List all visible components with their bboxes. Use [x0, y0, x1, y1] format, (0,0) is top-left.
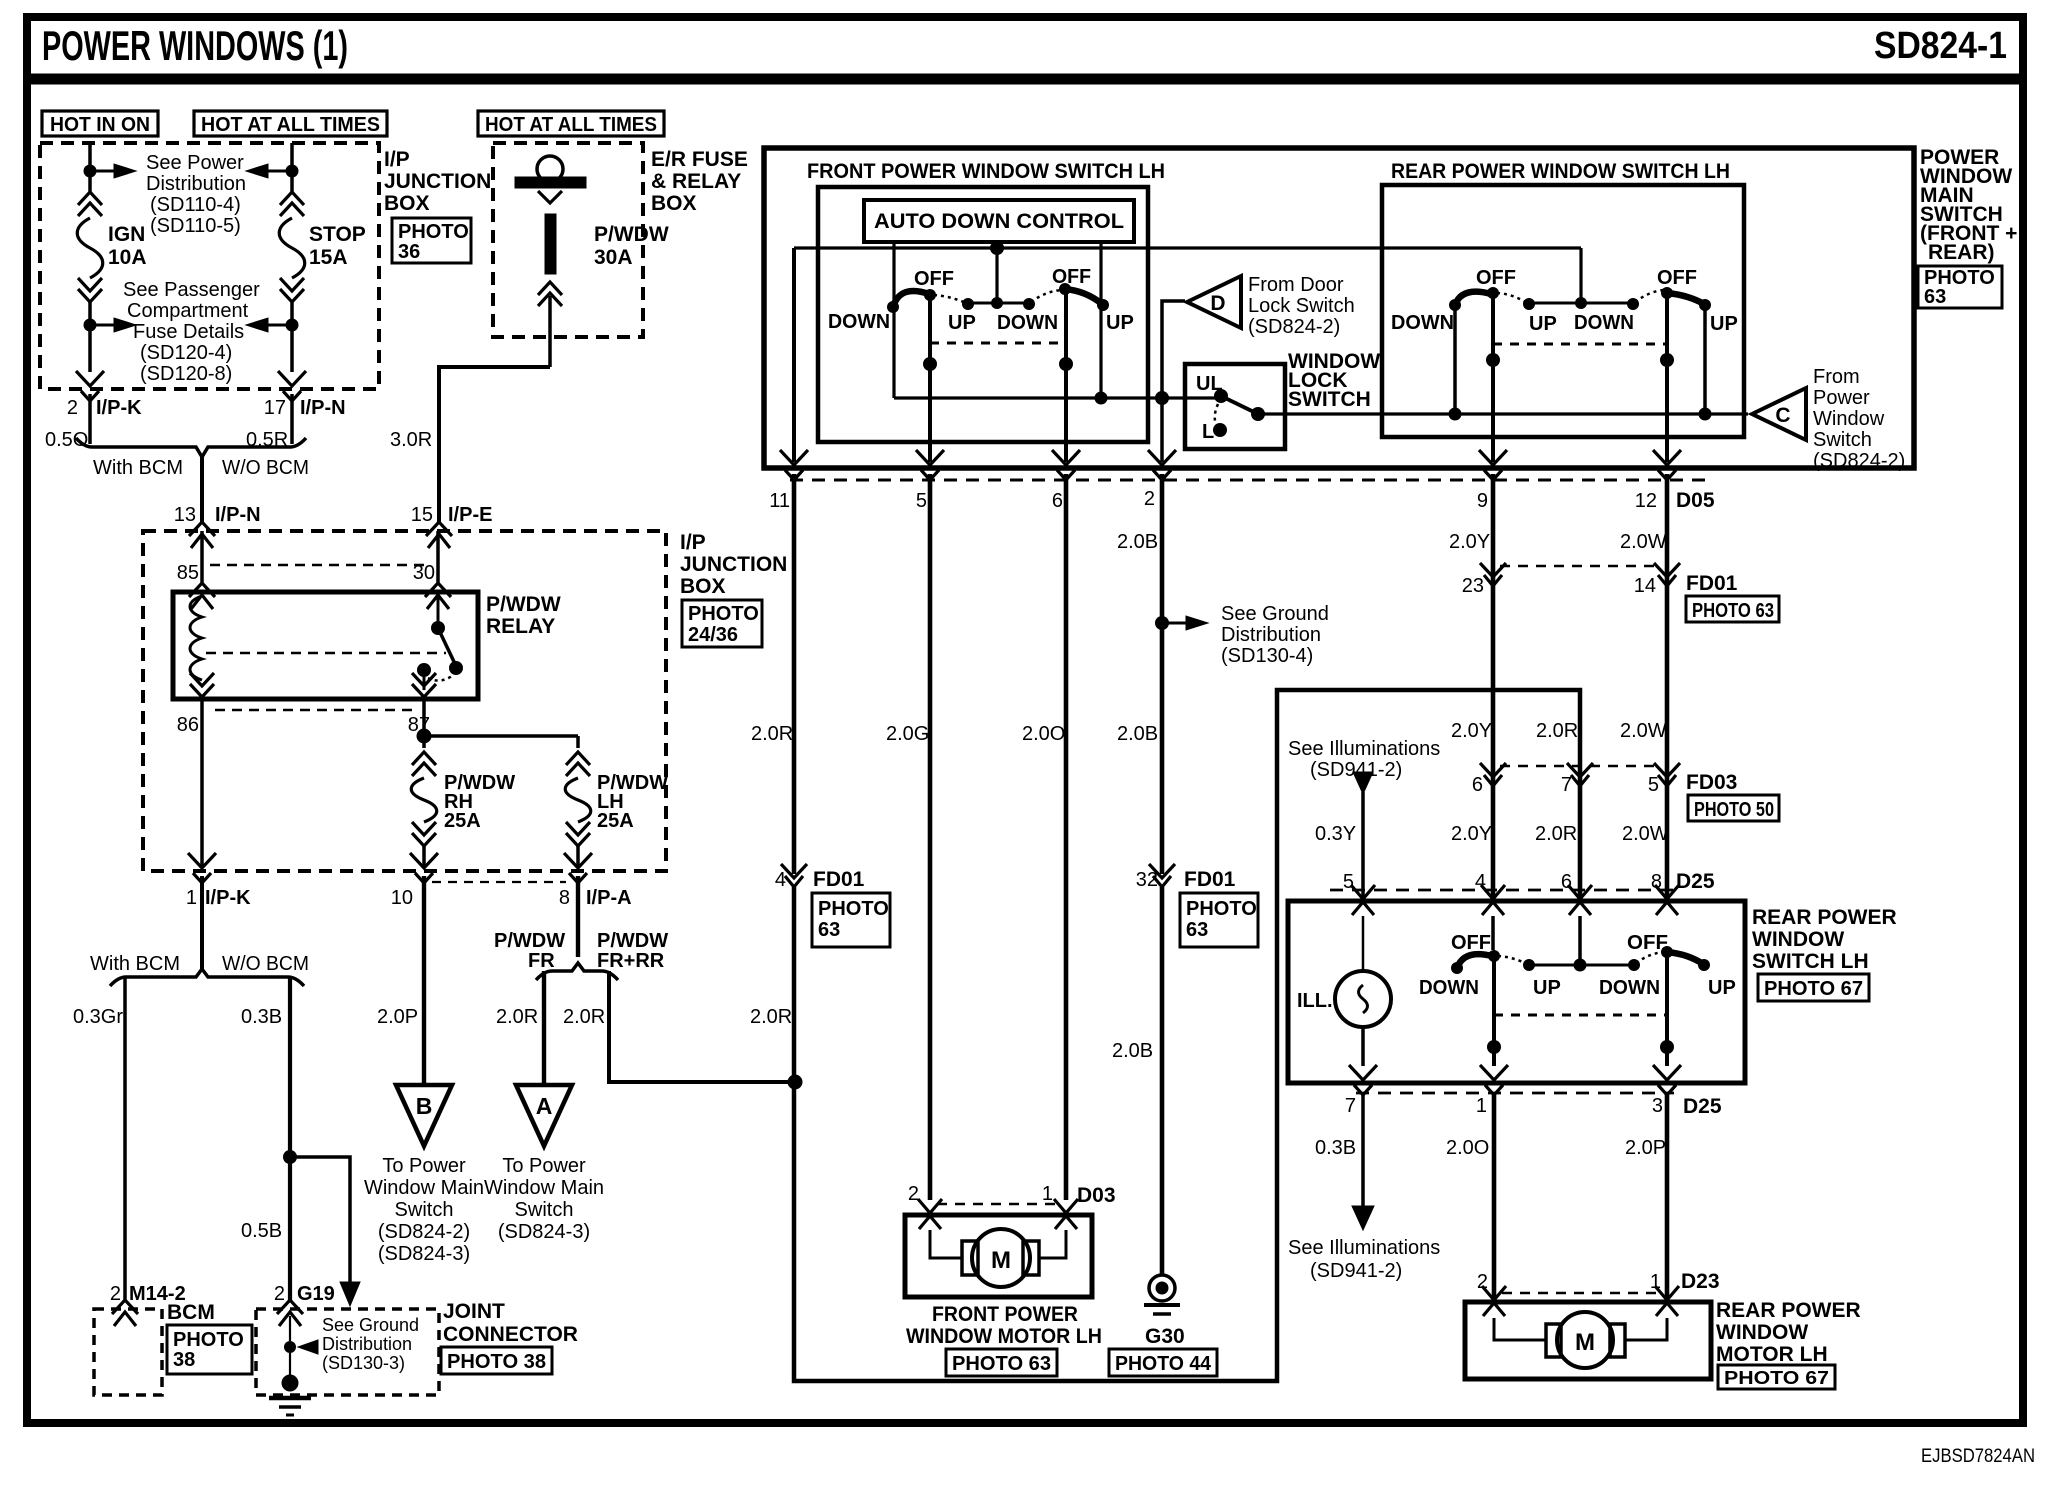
svg-text:0.3Gr: 0.3Gr	[73, 1006, 123, 1028]
svg-text:I/P-K: I/P-K	[96, 397, 142, 419]
connector entry pin 5 (lower rear switch)	[1351, 885, 1375, 915]
svg-text:UP: UP	[1710, 313, 1738, 335]
svg-text:23: 23	[1462, 575, 1484, 597]
svg-text:2.0B: 2.0B	[1112, 1040, 1153, 1062]
wire window lock common to C	[1258, 412, 1748, 415]
rear motor brush left	[1546, 1324, 1561, 1357]
front motor brush right	[1023, 1241, 1039, 1275]
svg-text:Power: Power	[1813, 387, 1870, 409]
svg-text:63: 63	[1924, 286, 1946, 308]
wire pin4 to pivot	[1491, 916, 1495, 950]
svg-text:WINDOW: WINDOW	[1716, 1321, 1808, 1344]
svg-text:3: 3	[1652, 1095, 1663, 1117]
svg-text:Window Main: Window Main	[484, 1177, 604, 1199]
wire to RH fuse	[422, 736, 426, 748]
fuse P/WDW LH 25A element	[565, 778, 591, 822]
label box PHOTO 63 (FD01 door)	[1686, 596, 1779, 622]
ground G30 bar 1	[1144, 1303, 1180, 1307]
contact UP (lower sw2)	[1698, 959, 1710, 971]
svg-text:30A: 30A	[594, 246, 633, 269]
svg-text:5: 5	[1343, 871, 1354, 893]
svg-text:Switch: Switch	[515, 1199, 574, 1221]
connector exit pin 1 (lower rear switch)	[1480, 1065, 1508, 1095]
arrow right See Ground Distribution (SD130-4)	[1186, 616, 1208, 630]
svg-text:PHOTO 44: PHOTO 44	[1115, 1353, 1212, 1375]
wire UP1-DOWN2 tie (rear)	[1529, 302, 1633, 305]
svg-text:2.0R: 2.0R	[1536, 720, 1578, 742]
wire pin 11	[792, 248, 796, 462]
svg-text:(SD130-4): (SD130-4)	[1221, 645, 1313, 667]
arrow right (See Passenger Fuse Details)	[114, 318, 136, 332]
svg-text:ILL.: ILL.	[1297, 990, 1333, 1012]
switch arm window lock	[1221, 396, 1258, 414]
wire 15 to relay pin 30	[436, 531, 440, 585]
connector entry pin 2 (rear motor)	[1482, 1286, 1506, 1316]
svg-text:Fuse Details: Fuse Details	[133, 321, 244, 343]
P/WDW 30A bus bar	[515, 177, 586, 188]
relay contact node (30)	[431, 621, 445, 635]
connector entry pin 30	[425, 583, 451, 609]
wire merge bus With BCM/W-O BCM	[76, 438, 306, 457]
wire split bus With BCM/W-O BCM (lower)	[110, 969, 304, 986]
svg-text:0.3B: 0.3B	[241, 1006, 282, 1028]
svg-text:E/R FUSE: E/R FUSE	[651, 148, 748, 171]
contact pivot OFF (rear sw2)	[1661, 287, 1673, 299]
dotted throw window lock (UL-L)	[1215, 404, 1218, 425]
arrow right (See Power Distribution)	[114, 164, 136, 178]
ground blob G19	[282, 1375, 299, 1392]
svg-text:13: 13	[174, 504, 196, 526]
ground bar 3	[286, 1414, 294, 1417]
svg-text:SWITCH LH: SWITCH LH	[1752, 950, 1869, 973]
svg-text:JUNCTION: JUNCTION	[680, 553, 787, 576]
fuse IGN 10A top chevrons	[78, 192, 102, 216]
wire 2.0P to B	[422, 876, 426, 1085]
svg-text:D25: D25	[1683, 1095, 1722, 1118]
connector FD01 pin 4	[781, 864, 807, 887]
lamp ILL filament	[1359, 985, 1368, 1013]
ground G30 bar 2	[1153, 1312, 1171, 1316]
wire to arrow left bottom	[268, 324, 286, 327]
svg-text:63: 63	[818, 919, 840, 941]
wire DOWN rear sw1 to lock line	[1453, 305, 1457, 414]
dotted throw lower sw2	[1636, 952, 1664, 963]
svg-text:UP: UP	[1529, 313, 1557, 335]
contact DOWN (lower sw2)	[1628, 959, 1640, 971]
node IGN lower junction	[84, 319, 97, 332]
fuse P/WDW LH 25A top chevrons	[566, 752, 590, 776]
svg-text:I/P-K: I/P-K	[205, 887, 251, 909]
svg-text:7: 7	[1345, 1095, 1356, 1117]
svg-text:86: 86	[177, 714, 199, 736]
wire pivot rear sw1 to pin 9	[1491, 293, 1495, 462]
wire UP rear sw2 to lock line	[1703, 305, 1707, 414]
svg-text:STOP: STOP	[309, 223, 366, 246]
off-page triangle C	[1752, 388, 1806, 440]
svg-text:2: 2	[110, 1283, 121, 1305]
dashed connector row D25 top	[1330, 889, 1676, 892]
connector entry pin 4 (lower rear switch)	[1481, 885, 1505, 915]
switch arm rear sw1	[1455, 292, 1491, 305]
relay pin30 stub	[437, 592, 440, 625]
svg-text:UP: UP	[948, 312, 976, 334]
svg-text:Window Main: Window Main	[364, 1177, 484, 1199]
dashed mechanical link lower switch	[1494, 1014, 1667, 1017]
svg-text:9: 9	[1477, 490, 1488, 512]
svg-text:See Illuminations: See Illuminations	[1288, 738, 1440, 760]
connector exit pin 2 (main switch)	[1148, 450, 1176, 480]
svg-text:(SD120-4): (SD120-4)	[140, 342, 232, 364]
box front power window switch inner	[818, 187, 1148, 442]
svg-text:REAR POWER: REAR POWER	[1752, 906, 1897, 929]
svg-text:MOTOR LH: MOTOR LH	[1716, 1343, 1828, 1366]
contact DOWN (front sw1)	[887, 301, 899, 313]
node ADC right leg on lower rail	[1095, 392, 1108, 405]
svg-text:4: 4	[775, 869, 786, 891]
wire IGN feed	[88, 143, 92, 192]
label box PHOTO 63 (FD01 left)	[812, 893, 890, 947]
box REAR POWER WINDOW MOTOR LH	[1465, 1302, 1711, 1379]
arrow down See Illuminations (bottom)	[1352, 1206, 1374, 1230]
svg-text:BOX: BOX	[384, 192, 430, 215]
wire 0.5O	[88, 394, 92, 444]
contact pivot OFF (front sw1)	[924, 289, 936, 301]
wire 2.0R trunk around motor to FD03 7	[794, 690, 1580, 1381]
svg-text:12: 12	[1635, 490, 1657, 512]
rear motor brush right	[1610, 1324, 1625, 1357]
svg-text:PHOTO: PHOTO	[398, 221, 469, 243]
fusible link P/WDW 30A	[537, 156, 563, 182]
svg-text:(SD941-2): (SD941-2)	[1310, 1260, 1402, 1282]
svg-text:2.0R: 2.0R	[496, 1006, 538, 1028]
svg-text:OFF: OFF	[914, 268, 954, 290]
fuse IGN 10A bottom chevrons	[78, 278, 102, 302]
node FR+RR joins 2.0R trunk	[788, 1075, 803, 1090]
fuse P/WDW RH 25A bottom chevrons	[412, 822, 436, 846]
relay dashed actuation link	[206, 652, 446, 655]
svg-text:Switch: Switch	[395, 1199, 454, 1221]
wire ADC right leg / UP2	[1099, 242, 1102, 398]
svg-text:2.0O: 2.0O	[1022, 723, 1065, 745]
svg-text:2.0O: 2.0O	[1446, 1137, 1489, 1159]
wire 2.0O pin6 to front motor	[1064, 474, 1069, 1200]
dashed connector row D25 bottom	[1356, 1092, 1674, 1095]
svg-text:REAR POWER: REAR POWER	[1716, 1299, 1861, 1322]
wire 86 to exit 1	[200, 700, 204, 866]
svg-text:2.0R: 2.0R	[751, 723, 793, 745]
svg-text:PHOTO: PHOTO	[688, 603, 759, 625]
switch arm lower sw1	[1457, 954, 1492, 968]
dashed box BCM	[94, 1309, 162, 1395]
label box PHOTO 38 (joint connector)	[441, 1347, 552, 1374]
svg-text:HOT AT ALL TIMES: HOT AT ALL TIMES	[485, 114, 657, 136]
ground bar 2	[279, 1405, 301, 1409]
svg-text:6: 6	[1472, 774, 1483, 796]
svg-text:Distribution: Distribution	[146, 173, 246, 195]
wire 0.3B to illuminations	[1361, 1093, 1365, 1206]
label box PHOTO 63 (main switch)	[1918, 266, 2002, 308]
svg-text:POWER WINDOWS (1): POWER WINDOWS (1)	[42, 22, 348, 69]
connector exit pin 3 (lower rear switch)	[1653, 1065, 1681, 1095]
svg-text:See Illuminations: See Illuminations	[1288, 1237, 1440, 1259]
node UP rear sw2 on lock line	[1699, 408, 1712, 421]
svg-text:FR: FR	[528, 950, 555, 972]
svg-text:To Power: To Power	[382, 1155, 466, 1177]
svg-text:UP: UP	[1708, 977, 1736, 999]
svg-text:M: M	[991, 1247, 1011, 1274]
node link dot front sw2	[1059, 357, 1073, 371]
connector exit 10	[410, 853, 438, 883]
node DOWN rear sw1 on lock line	[1449, 408, 1462, 421]
svg-text:D05: D05	[1676, 489, 1715, 512]
svg-text:2.0Y: 2.0Y	[1451, 823, 1492, 845]
switch arm front sw1 (DOWN-OFF)	[893, 291, 929, 307]
dashed connector row 85/30	[210, 564, 430, 567]
dashed connector row 10/8	[432, 881, 566, 883]
svg-text:PHOTO: PHOTO	[818, 898, 889, 920]
svg-text:0.3B: 0.3B	[1315, 1137, 1356, 1159]
svg-text:D: D	[1210, 292, 1225, 315]
lamp ILL	[1335, 971, 1391, 1027]
svg-text:REAR): REAR)	[1928, 241, 1995, 264]
svg-text:FRONT POWER WINDOW SWITCH LH: FRONT POWER WINDOW SWITCH LH	[807, 160, 1165, 183]
svg-text:I/P-E: I/P-E	[448, 504, 492, 526]
svg-text:DOWN: DOWN	[997, 312, 1058, 334]
contact UL	[1214, 389, 1228, 403]
node link dot rear sw2	[1660, 353, 1674, 367]
svg-text:2.0W: 2.0W	[1622, 823, 1669, 845]
svg-text:2: 2	[908, 1183, 919, 1205]
svg-text:REAR POWER WINDOW SWITCH LH: REAR POWER WINDOW SWITCH LH	[1391, 160, 1730, 183]
dashed box I/P JUNCTION BOX (fuses)	[40, 143, 379, 389]
svg-text:G19: G19	[297, 1283, 335, 1305]
svg-text:2.0R: 2.0R	[750, 1006, 792, 1028]
connector exit 1 I/P-K	[188, 853, 216, 883]
svg-text:See Ground: See Ground	[322, 1315, 419, 1335]
svg-text:2.0R: 2.0R	[563, 1006, 605, 1028]
svg-text:A: A	[536, 1093, 553, 1119]
chevron below fusible link	[538, 282, 562, 306]
dashed connector row FD03	[1500, 765, 1662, 768]
svg-text:Distribution: Distribution	[1221, 624, 1321, 646]
svg-text:PHOTO 67: PHOTO 67	[1764, 978, 1863, 1000]
wire ADC left leg	[892, 242, 895, 398]
svg-text:5: 5	[1648, 774, 1659, 796]
fuse P/WDW RH 25A top chevrons	[412, 752, 436, 776]
connector exit 8 I/P-A	[564, 853, 592, 883]
svg-text:HOT AT ALL TIMES: HOT AT ALL TIMES	[201, 114, 380, 136]
arrow left (See Passenger Fuse Details)	[246, 318, 268, 332]
svg-text:G30: G30	[1145, 1325, 1185, 1348]
svg-text:WINDOW MOTOR LH: WINDOW MOTOR LH	[906, 1325, 1102, 1348]
svg-text:D25: D25	[1676, 870, 1715, 893]
wire UP1-DOWN2 tie	[968, 302, 1029, 305]
svg-text:Lock Switch: Lock Switch	[1248, 295, 1355, 317]
dashed mechanical link front switch	[930, 342, 1066, 345]
svg-text:PHOTO: PHOTO	[173, 1329, 244, 1351]
wire merged to 13 I/P-N	[200, 455, 204, 524]
dashed box JOINT CONNECTOR G19	[256, 1309, 439, 1395]
relay pin87 stub	[423, 670, 426, 690]
relay contact node (87)	[417, 663, 431, 677]
svg-text:C: C	[1775, 404, 1790, 427]
wire 2.0B pin2 to FD01 32	[1160, 474, 1165, 874]
front motor brush left	[962, 1241, 978, 1275]
dashed mechanical link rear switch	[1493, 343, 1667, 346]
wire to See Power Distribution arrow	[96, 170, 114, 173]
svg-text:DOWN: DOWN	[1419, 977, 1479, 999]
svg-text:BCM: BCM	[167, 1301, 215, 1324]
svg-text:FD01: FD01	[813, 868, 865, 891]
svg-text:DOWN: DOWN	[1599, 977, 1660, 999]
node 87 branch junction	[417, 729, 432, 744]
switch arm lower sw2	[1667, 952, 1703, 964]
arrow left See Ground Distribution (SD130-3)	[298, 1340, 318, 1354]
fuse STOP 15A element	[279, 218, 305, 278]
wire 2.0R pin11 to FD01	[792, 474, 797, 874]
svg-text:2.0Y: 2.0Y	[1451, 720, 1492, 742]
contact pivot OFF (front sw2)	[1059, 283, 1071, 295]
svg-text:DOWN: DOWN	[1391, 312, 1454, 334]
connector FD03 pin 5	[1654, 763, 1680, 786]
node STOP lower junction	[286, 319, 299, 332]
contact UP (rear sw1)	[1523, 298, 1535, 310]
wire 2.0P to rear motor	[1665, 1093, 1670, 1300]
switch arm front sw2 (OFF-UP)	[1065, 289, 1102, 304]
svg-text:11: 11	[769, 490, 790, 512]
svg-text:32: 32	[1136, 869, 1158, 891]
contact DOWN (rear sw1)	[1449, 299, 1461, 311]
svg-text:I/P-N: I/P-N	[300, 397, 346, 419]
svg-text:See Power: See Power	[146, 152, 244, 174]
svg-text:DOWN: DOWN	[1574, 312, 1634, 334]
wire IGN fuse to exit	[88, 302, 92, 372]
switch arm rear sw2	[1667, 293, 1704, 304]
svg-text:PHOTO 50: PHOTO 50	[1694, 799, 1774, 821]
svg-text:7: 7	[1561, 774, 1572, 796]
wire pivot lower sw2 to pin 3	[1665, 952, 1669, 1066]
svg-text:PHOTO 63: PHOTO 63	[1692, 600, 1774, 622]
contact pivot OFF (rear sw1)	[1487, 287, 1499, 299]
relay P/WDW RELAY body	[173, 592, 478, 699]
svg-text:(SD110-5): (SD110-5)	[150, 215, 241, 237]
node link dot front sw1	[923, 357, 937, 371]
node T centre	[991, 297, 1003, 309]
connector exit pin 9 (main switch)	[1479, 450, 1507, 480]
wire split bus P/WDW FR / FR+RR	[536, 963, 618, 980]
svg-text:& RELAY: & RELAY	[651, 170, 741, 193]
node link dot lower sw1	[1487, 1040, 1501, 1054]
connector exit pin 12 (main switch)	[1653, 450, 1681, 480]
node STOP top junction	[286, 165, 299, 178]
svg-text:With BCM: With BCM	[93, 457, 183, 479]
dashed connector row D23	[1502, 1292, 1660, 1295]
connector exit pin 86 chevrons	[190, 673, 214, 697]
connector entry into BCM	[112, 1300, 138, 1326]
connector FD03 pin 6	[1480, 763, 1506, 786]
svg-text:CONNECTOR: CONNECTOR	[443, 1323, 578, 1346]
ground G30	[1149, 1275, 1175, 1301]
fuse P/WDW RH 25A element	[411, 778, 437, 822]
svg-text:Switch: Switch	[1813, 429, 1872, 451]
connector entry pin 6 (lower rear switch)	[1568, 885, 1592, 915]
svg-text:10A: 10A	[108, 246, 147, 269]
motor M rear	[1557, 1312, 1613, 1368]
wire STOP feed	[290, 143, 294, 192]
wire STOP fuse to exit	[290, 302, 294, 372]
svg-text:25A: 25A	[597, 810, 634, 832]
contact L	[1213, 423, 1227, 437]
label box PHOTO 44	[1109, 1349, 1217, 1376]
svg-text:14: 14	[1634, 575, 1656, 597]
label box PHOTO 36	[392, 218, 471, 263]
fuse IGN 10A element	[77, 218, 103, 278]
wire pivot front sw2 to pin 6	[1064, 289, 1068, 462]
svg-text:2.0B: 2.0B	[1117, 723, 1158, 745]
svg-text:2.0W: 2.0W	[1620, 720, 1667, 742]
wire pin6 to tie	[1578, 916, 1582, 965]
wire ILL lamp to pin 7	[1361, 1027, 1365, 1066]
svg-text:2: 2	[67, 397, 78, 419]
wire 0.5R	[290, 394, 294, 444]
dashed connector row 23/14	[1500, 565, 1660, 568]
svg-text:I/P-A: I/P-A	[586, 887, 632, 909]
svg-text:BOX: BOX	[651, 192, 697, 215]
svg-text:1: 1	[1476, 1095, 1487, 1117]
svg-text:P/WDW: P/WDW	[597, 930, 668, 952]
ground bar 1	[269, 1396, 311, 1401]
svg-text:See Passenger: See Passenger	[123, 279, 260, 301]
wire 3.0R to 15 I/P-E	[439, 367, 550, 524]
dotted throw rear sw2	[1635, 290, 1664, 302]
connector exit 17 I/P-N	[278, 371, 306, 401]
svg-text:1: 1	[1042, 1183, 1053, 1205]
contact UP (lower sw1)	[1523, 959, 1535, 971]
svg-text:Compartment: Compartment	[127, 300, 249, 322]
svg-text:DOWN: DOWN	[828, 311, 890, 333]
svg-text:OFF: OFF	[1627, 932, 1668, 954]
svg-text:I/P: I/P	[384, 148, 410, 171]
svg-text:FD03: FD03	[1686, 771, 1737, 794]
wire rear motor left lead	[1494, 1318, 1550, 1340]
wire 2.0G pin5 to front motor	[928, 474, 933, 1200]
svg-text:2.0Y: 2.0Y	[1449, 531, 1490, 553]
contact pivot OFF (lower sw1)	[1488, 950, 1500, 962]
wire 2.0R to A	[542, 971, 546, 1085]
node T centre (rear)	[1575, 297, 1587, 309]
svg-text:38: 38	[173, 1349, 195, 1371]
label box HOT AT ALL TIMES (left)	[194, 111, 387, 136]
svg-text:Window: Window	[1813, 408, 1885, 430]
label box PHOTO 63 (front motor)	[946, 1349, 1057, 1376]
wire rail lower (to window lock UL)	[894, 396, 1221, 399]
svg-text:OFF: OFF	[1451, 932, 1491, 954]
connector FD01 pin 14	[1654, 563, 1680, 586]
svg-text:(SD824-2): (SD824-2)	[1248, 316, 1340, 338]
svg-text:25A: 25A	[444, 810, 481, 832]
wire front motor left lead	[930, 1230, 965, 1258]
svg-text:15A: 15A	[309, 246, 348, 269]
wire to See Passenger arrow	[96, 324, 114, 327]
fuse STOP 15A top chevrons	[280, 192, 304, 216]
wire front motor right lead	[1036, 1230, 1066, 1258]
svg-text:0.3Y: 0.3Y	[1315, 823, 1356, 845]
svg-text:85: 85	[177, 562, 199, 584]
contact DOWN (front sw2)	[1023, 298, 1035, 310]
svg-text:2.0B: 2.0B	[1117, 531, 1158, 553]
label box PHOTO 38 (BCM)	[167, 1325, 252, 1374]
svg-text:2: 2	[1144, 488, 1155, 510]
